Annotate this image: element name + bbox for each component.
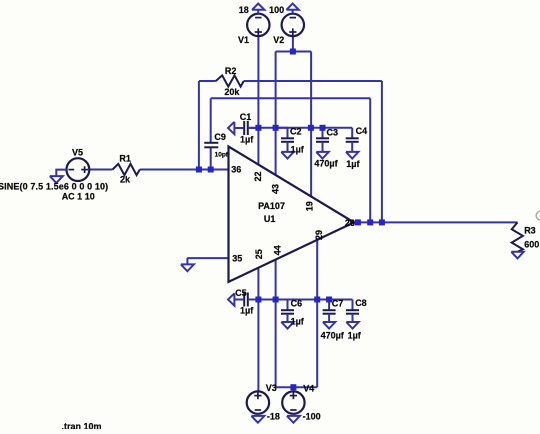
svg-text:1µf: 1µf (240, 135, 254, 145)
svg-text:1µf: 1µf (348, 331, 362, 341)
svg-text:V5: V5 (72, 148, 83, 158)
svg-text:C7: C7 (332, 299, 344, 309)
svg-text:43: 43 (270, 184, 280, 194)
svg-text:V2: V2 (273, 35, 284, 45)
svg-text:20k: 20k (224, 87, 240, 97)
svg-text:1µf: 1µf (346, 159, 360, 169)
svg-text:25: 25 (254, 249, 264, 259)
svg-text:V3: V3 (266, 383, 277, 393)
svg-text:PA107: PA107 (258, 201, 285, 211)
svg-text:R1: R1 (119, 153, 131, 163)
svg-text:35: 35 (232, 254, 242, 264)
svg-text:10pf: 10pf (215, 152, 229, 159)
svg-text:.tran 10m: .tran 10m (62, 422, 102, 429)
svg-text:C2: C2 (290, 127, 302, 137)
svg-text:600: 600 (524, 240, 539, 250)
svg-text:V1: V1 (238, 35, 249, 45)
svg-text:C1: C1 (240, 112, 252, 122)
svg-text:R3: R3 (524, 226, 536, 236)
svg-text:C5: C5 (235, 288, 247, 298)
svg-text:C3: C3 (327, 128, 339, 138)
svg-text:SINE(0 7.5 1.5e6 0 0 0 10): SINE(0 7.5 1.5e6 0 0 0 10) (0, 181, 108, 191)
svg-text:C6: C6 (291, 299, 303, 309)
svg-text:1µf: 1µf (291, 144, 305, 154)
svg-text:44: 44 (272, 245, 282, 255)
svg-text:C8: C8 (355, 298, 367, 308)
svg-text:2k: 2k (120, 174, 131, 184)
svg-text:22: 22 (253, 171, 263, 181)
svg-text:26: 26 (345, 218, 355, 228)
svg-text:R2: R2 (225, 66, 237, 76)
svg-text:1µf: 1µf (291, 316, 305, 326)
svg-text:100: 100 (269, 5, 284, 15)
svg-text:C9: C9 (214, 132, 226, 142)
svg-text:29: 29 (314, 230, 324, 240)
svg-text:1µf: 1µf (240, 306, 254, 316)
svg-text:AC 1 10: AC 1 10 (62, 192, 95, 202)
svg-text:36: 36 (231, 165, 241, 175)
svg-text:18: 18 (239, 5, 249, 15)
svg-text:V4: V4 (303, 383, 314, 393)
svg-text:470µf: 470µf (321, 331, 345, 341)
svg-text:U1: U1 (264, 214, 276, 224)
svg-text:-18: -18 (267, 412, 280, 422)
svg-text:19: 19 (305, 201, 315, 211)
svg-text:C4: C4 (356, 126, 368, 136)
svg-text:470µf: 470µf (314, 159, 338, 169)
svg-text:-100: -100 (303, 412, 321, 422)
